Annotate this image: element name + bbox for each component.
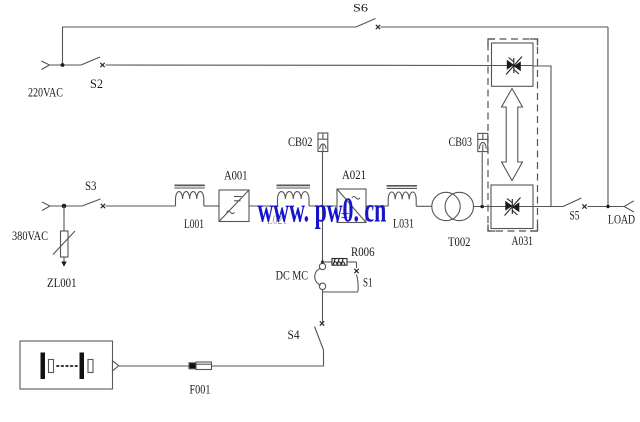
svg-text:S2: S2 xyxy=(90,77,103,91)
switch S6 xyxy=(353,1,380,30)
resistor R006 xyxy=(323,245,375,265)
node junction bypass tie xyxy=(606,205,609,208)
inductor L031 xyxy=(387,186,417,231)
wire S3 to L001 xyxy=(106,205,176,207)
svg-text:DC MC: DC MC xyxy=(276,269,309,283)
switch S2 xyxy=(81,57,105,91)
static switch enclosure (dashed) xyxy=(488,39,538,231)
wire top bypass line left segment xyxy=(63,27,357,65)
transfer arrow (double-headed) xyxy=(502,89,523,181)
source terminal 380VAC xyxy=(12,202,50,243)
wire L031 to T002 xyxy=(416,205,432,207)
breaker CB02 xyxy=(288,133,328,152)
wire DC node down to contactor xyxy=(322,206,324,263)
wire A021 to L031 xyxy=(366,205,388,207)
switch S1 xyxy=(347,262,373,292)
wire 380VAC feed xyxy=(50,205,82,207)
svg-text:380VAC: 380VAC xyxy=(12,228,48,243)
svg-text:www. pw0. cn: www. pw0. cn xyxy=(258,192,387,230)
wire A001 to L021 xyxy=(249,205,278,207)
svg-text:A001: A001 xyxy=(224,169,248,183)
wire S5 to LOAD xyxy=(588,206,625,208)
wire right bypass vertical drop xyxy=(607,27,609,207)
wire CB03 stub down xyxy=(481,152,483,206)
switch S4 xyxy=(288,321,325,350)
node junction R006 tap xyxy=(321,261,324,264)
switch S3 xyxy=(82,179,105,208)
node junction CB03 tap xyxy=(480,205,484,209)
svg-text:S3: S3 xyxy=(85,179,97,193)
wire S4 down to battery bus xyxy=(119,350,324,366)
breaker CB03 xyxy=(449,133,488,151)
rectifier A001 xyxy=(219,169,249,222)
wire T002 to A031 xyxy=(474,206,492,208)
wire 220VAC bypass to static switch xyxy=(106,64,492,67)
node junction 220VAC xyxy=(61,63,65,67)
svg-text:F001: F001 xyxy=(190,383,211,397)
wire L021 to A021 across DC node xyxy=(309,205,337,207)
transformer T002 xyxy=(432,192,474,249)
static switch bypass SCR box (top) xyxy=(492,43,534,86)
svg-text:S4: S4 xyxy=(288,328,301,342)
svg-text:L031: L031 xyxy=(393,217,414,231)
svg-text:L001: L001 xyxy=(184,217,204,231)
svg-text:T002: T002 xyxy=(448,235,471,249)
wire A031 to S5 xyxy=(533,206,563,208)
varistor ZL001 xyxy=(47,206,77,290)
inverter A021 xyxy=(337,168,366,223)
svg-text:A031: A031 xyxy=(512,234,534,248)
svg-text:220VAC: 220VAC xyxy=(28,85,63,100)
svg-text:R006: R006 xyxy=(351,245,375,259)
wire 220VAC feed xyxy=(50,64,82,66)
wire top bypass line right segment xyxy=(381,26,609,28)
inductor L001 xyxy=(175,185,205,231)
load terminal LOAD xyxy=(608,201,635,227)
fuse F001 xyxy=(189,362,212,397)
svg-text:A021: A021 xyxy=(342,168,366,182)
source terminal 220VAC xyxy=(28,61,63,100)
inductor L021 xyxy=(267,185,310,227)
wire top SCR output xyxy=(533,66,551,207)
wire S1 return to bus xyxy=(323,291,359,293)
svg-text:S1: S1 xyxy=(363,276,373,290)
wire contactor to S4 xyxy=(322,290,324,323)
switch S5 xyxy=(563,198,587,223)
node junction 380VAC xyxy=(62,204,67,209)
battery bank xyxy=(20,341,119,389)
svg-text:S6: S6 xyxy=(353,1,368,15)
svg-text:CB02: CB02 xyxy=(288,135,313,149)
static switch A031 (main SCR box) xyxy=(491,185,533,248)
svg-text:ZL001: ZL001 xyxy=(47,276,77,290)
wire L001 to A001 xyxy=(204,205,219,207)
svg-text:CB03: CB03 xyxy=(449,135,473,149)
svg-text:LOAD: LOAD xyxy=(608,213,635,227)
svg-text:S5: S5 xyxy=(570,209,580,223)
contactor DC MC xyxy=(276,263,326,289)
wire CB02 stub down to DC node xyxy=(322,152,324,206)
